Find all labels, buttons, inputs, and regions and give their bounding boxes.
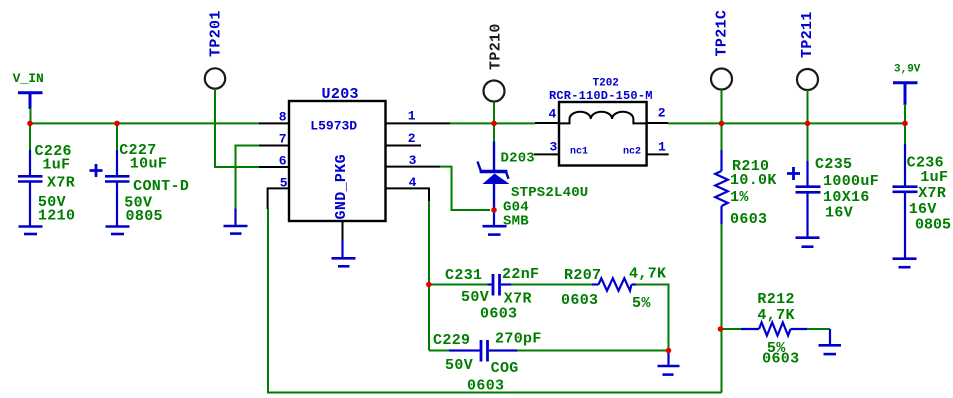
- svg-text:16V: 16V: [825, 205, 853, 222]
- wire R210 bottom: [721, 224, 723, 393]
- capacitor C229: [449, 340, 518, 362]
- svg-text:1uF: 1uF: [42, 157, 70, 174]
- node 3,9V: [894, 64, 921, 76]
- svg-text:SMB: SMB: [503, 214, 529, 230]
- svg-text:TP201: TP201: [208, 10, 225, 57]
- capacitor C226: [18, 150, 43, 226]
- svg-text:0603: 0603: [480, 306, 517, 323]
- svg-text:0805: 0805: [915, 217, 951, 234]
- junction: [719, 121, 725, 127]
- op-amp U1 IC U203 body: [289, 101, 386, 221]
- svg-text:6: 6: [279, 154, 287, 169]
- wire R212 left: [722, 328, 743, 330]
- wire pin3: [440, 167, 490, 210]
- junction: [666, 348, 672, 354]
- svg-text:50V: 50V: [445, 357, 473, 374]
- T202 pin 3: [534, 153, 559, 155]
- testpoint TP201: [208, 10, 225, 57]
- T202 winding: [559, 112, 647, 124]
- wire TP210 stub: [493, 102, 495, 143]
- svg-text:CONT-D: CONT-D: [133, 178, 189, 195]
- wire TP211 stub: [807, 90, 809, 123]
- resistor R207: [592, 278, 637, 290]
- C235 value labels: [815, 156, 879, 222]
- pin 5: [268, 188, 289, 209]
- node V_IN: [13, 71, 44, 86]
- svg-text:C229: C229: [433, 332, 470, 349]
- wire C229 right: [517, 350, 669, 352]
- svg-text:C231: C231: [445, 267, 482, 284]
- resistor R212: [741, 322, 808, 335]
- wire R212 right: [807, 328, 830, 330]
- ground: [19, 227, 43, 235]
- power bar V_IN: [18, 93, 43, 109]
- junction: [718, 326, 724, 332]
- svg-text:COG: COG: [491, 360, 519, 377]
- pin 3: [386, 166, 441, 168]
- svg-text:1%: 1%: [730, 189, 749, 206]
- U203 GND_PKG label: [333, 154, 350, 219]
- wire C229 branch left: [429, 350, 481, 352]
- svg-text:R212: R212: [757, 291, 794, 308]
- wire C227 stub: [116, 123, 118, 151]
- svg-text:0603: 0603: [762, 351, 799, 368]
- wire R210 top: [721, 123, 723, 151]
- svg-text:5: 5: [280, 176, 288, 191]
- ground: [893, 259, 917, 268]
- svg-text:X7R: X7R: [918, 185, 946, 202]
- R207 value labels: [561, 266, 666, 312]
- power bar 3,9V: [893, 83, 918, 105]
- R212 value labels: [757, 291, 799, 368]
- svg-text:V_IN: V_IN: [13, 71, 44, 86]
- svg-text:5%: 5%: [632, 295, 651, 312]
- svg-text:T202: T202: [593, 78, 619, 90]
- svg-text:nc1: nc1: [570, 147, 588, 158]
- junction: [491, 207, 497, 213]
- junction: [805, 121, 811, 127]
- svg-text:TP211: TP211: [799, 11, 816, 58]
- ground: [819, 329, 842, 354]
- svg-text:8: 8: [279, 110, 287, 125]
- svg-text:U203: U203: [322, 86, 359, 103]
- wire pin6: [214, 166, 260, 168]
- wire input rail: [29, 122, 260, 124]
- wire pin4 comp node: [428, 201, 430, 351]
- svg-text:2: 2: [658, 106, 666, 121]
- svg-text:22nF: 22nF: [502, 266, 539, 283]
- svg-text:16V: 16V: [909, 201, 937, 218]
- svg-text:RCR-110D-150-M: RCR-110D-150-M: [549, 89, 653, 103]
- svg-text:L5973D: L5973D: [310, 119, 357, 134]
- svg-text:3: 3: [409, 153, 417, 168]
- svg-text:0603: 0603: [561, 292, 598, 309]
- ground: [224, 209, 248, 234]
- ground: [332, 240, 356, 266]
- pin 8: [259, 122, 289, 124]
- svg-text:1uF: 1uF: [920, 169, 948, 186]
- svg-text:4: 4: [549, 107, 557, 122]
- ground: [106, 227, 130, 235]
- wire C236 stub: [904, 123, 906, 145]
- T202 pin 2: [647, 122, 668, 124]
- wire C231 branch left: [429, 284, 489, 286]
- ground: [658, 351, 680, 375]
- C231 value labels: [445, 266, 539, 323]
- transformer T202 body: [559, 102, 647, 166]
- junction: [114, 121, 120, 127]
- wire C231 to R207: [511, 284, 593, 286]
- ground: [483, 210, 507, 235]
- C229 value labels: [433, 331, 542, 395]
- testpoint TP211: [799, 11, 816, 58]
- R210 value labels: [730, 158, 777, 228]
- junction: [27, 121, 33, 127]
- wire V_IN stem: [30, 108, 32, 123]
- pin 1: [386, 122, 451, 124]
- junction: [902, 121, 908, 127]
- capacitor C236: [893, 144, 918, 258]
- svg-text:1210: 1210: [38, 207, 75, 224]
- svg-text:0603: 0603: [730, 211, 767, 228]
- svg-text:D203: D203: [501, 151, 535, 167]
- svg-text:7: 7: [279, 132, 287, 147]
- pin 4: [386, 188, 430, 202]
- wire pin1 to switch node: [450, 122, 535, 124]
- U203 ground pin: [342, 221, 344, 241]
- wire TP201 stub: [214, 89, 216, 167]
- testpoint TP210: [488, 23, 505, 70]
- capacitor C227 polarized: [90, 150, 130, 226]
- svg-text:3,9V: 3,9V: [894, 64, 921, 76]
- pin 7: [259, 145, 289, 147]
- svg-text:TP21C: TP21C: [714, 10, 731, 57]
- D203 value labels: [503, 185, 588, 230]
- wire pin7: [236, 146, 260, 209]
- svg-text:GND_PKG: GND_PKG: [333, 154, 350, 219]
- svg-text:4: 4: [409, 175, 417, 190]
- svg-text:0805: 0805: [126, 208, 163, 225]
- junction: [426, 282, 432, 288]
- svg-text:X7R: X7R: [47, 175, 75, 192]
- ground: [796, 238, 820, 247]
- svg-text:50V: 50V: [461, 289, 489, 306]
- wire TP21C stub: [721, 90, 723, 124]
- resistor R210: [715, 150, 728, 225]
- C236 value labels: [907, 154, 951, 233]
- diode D203 schottky: [478, 142, 510, 211]
- capacitor C235 polarized: [787, 161, 821, 237]
- junction: [491, 121, 497, 127]
- svg-text:10.0K: 10.0K: [730, 172, 777, 189]
- svg-text:C235: C235: [815, 156, 852, 173]
- svg-text:TP210: TP210: [488, 23, 505, 70]
- svg-text:3: 3: [550, 140, 558, 155]
- capacitor C231: [488, 274, 512, 296]
- svg-text:4,7K: 4,7K: [757, 307, 794, 324]
- pin 6: [259, 166, 289, 168]
- C226 value labels: [35, 143, 76, 224]
- wire 3,9V stem: [904, 104, 906, 123]
- svg-text:R207: R207: [564, 267, 601, 284]
- wire output rail: [668, 122, 905, 124]
- wire C226 stub: [29, 123, 31, 151]
- svg-text:1: 1: [408, 109, 416, 124]
- wire pin5 feedback: [268, 209, 722, 393]
- T202 pin 4: [535, 122, 559, 124]
- svg-text:STPS2L40U: STPS2L40U: [511, 185, 588, 201]
- C227 value labels: [119, 142, 189, 225]
- svg-text:1000uF: 1000uF: [823, 173, 879, 190]
- svg-text:4,7K: 4,7K: [629, 266, 666, 283]
- svg-text:270pF: 270pF: [495, 331, 542, 348]
- svg-text:2: 2: [408, 131, 416, 146]
- wire R207 to gnd corner: [636, 285, 669, 351]
- pin 2: [386, 145, 422, 147]
- T202 pin 1: [647, 153, 669, 155]
- svg-text:nc2: nc2: [623, 147, 641, 158]
- svg-text:10uF: 10uF: [130, 155, 167, 172]
- svg-text:1: 1: [658, 140, 666, 155]
- testpoint TP21C: [714, 10, 731, 57]
- wire C235 stub: [807, 123, 809, 162]
